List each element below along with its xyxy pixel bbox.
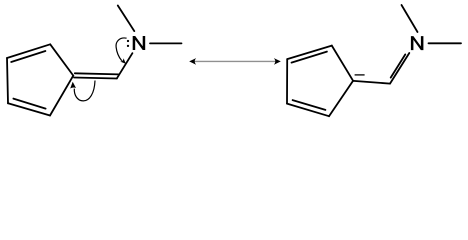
exocyclic double bond C1=C6 lower line	[74, 78, 117, 79]
N lone pair dot lower	[127, 45, 129, 47]
curved arrow head (pi bond arrow)	[70, 82, 76, 89]
double bond C6'=N' second line	[391, 54, 406, 77]
exocyclic double bond C1=C6 upper line	[75, 73, 119, 74]
curved arrow head (lone pair arrow)	[120, 58, 126, 64]
bond C1'-C6' (right structure)	[354, 81, 391, 84]
right ring bond C3'-C4' (left edge)	[286, 59, 288, 104]
right ring double bond C4'=C5' (bottom edge, outer line)	[287, 104, 329, 117]
left ring double bond C4=C5 (bottom edge, outer line)	[8, 103, 50, 115]
N-methyl bond up-left (left structure)	[118, 6, 135, 32]
N-methyl bond right (right structure)	[429, 42, 462, 44]
N atom label (left)	[133, 36, 146, 50]
left ring double bond C4=C5 inner line	[13, 99, 45, 109]
N atom label (right)	[411, 36, 424, 50]
left fulvene ring bond C1-C2 (top-right edge)	[50, 44, 73, 75]
N lone pair dot upper	[127, 40, 129, 42]
N-methyl bond right (left structure)	[150, 42, 182, 44]
right ring bond C5'-C1' (bottom-right edge)	[329, 81, 353, 116]
minus charge on right ring C1'	[355, 74, 365, 76]
resonance arrow right head	[274, 58, 281, 65]
resonance double-headed arrow shaft	[194, 60, 279, 62]
right ring double bond C2'=C3' (top-left edge, outer line)	[287, 46, 332, 60]
curved arrow from exocyclic pi bond into ring	[74, 81, 95, 101]
right ring double bond C4'=C5' inner line	[293, 100, 326, 110]
right ring double bond C2'=C3' inner line	[292, 52, 327, 63]
right ring bond C1'-C2' (top-right edge)	[332, 46, 353, 81]
left ring bond C3-C4 (left edge)	[7, 58, 8, 103]
curved arrow from N lone pair to C6-N bond	[116, 38, 127, 61]
N-methyl bond up-left (right structure)	[402, 5, 418, 32]
resonance arrow left head	[189, 58, 196, 65]
double bond C6'=N' main line	[390, 53, 409, 84]
bond C6-N (left structure)	[117, 53, 132, 78]
left ring bond C5-C1 (bottom-right edge)	[50, 76, 73, 116]
left ring double bond C2=C3 (top-left edge, outer line)	[7, 44, 50, 58]
left ring double bond C2=C3 inner line	[11, 51, 45, 62]
